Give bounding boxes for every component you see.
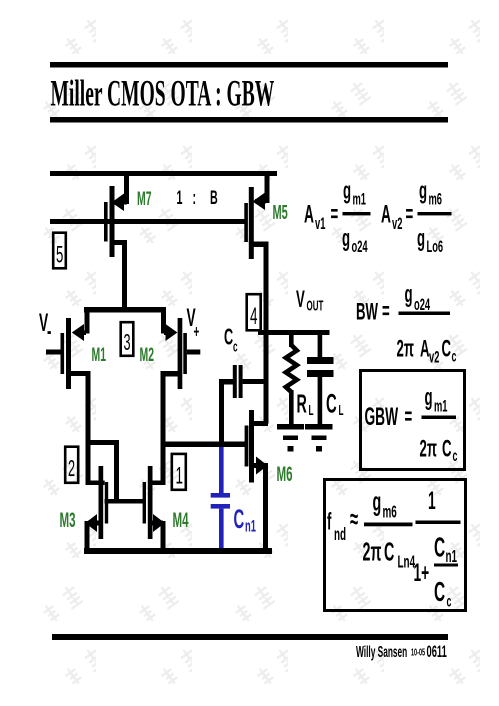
wire tail bar <box>84 307 166 313</box>
transistor M1 drain wire <box>70 371 91 485</box>
svg-text:A: A <box>420 335 430 362</box>
transistor M1 gate lead <box>46 350 61 355</box>
svg-text:g: g <box>373 488 382 517</box>
label M3 <box>60 508 76 532</box>
transistor M4 source arrow <box>151 514 165 532</box>
svg-text:g: g <box>405 281 413 308</box>
capacitor Cn1 plates <box>211 493 230 509</box>
svg-text:2: 2 <box>68 455 75 481</box>
transistor M4 drain wire <box>148 481 165 486</box>
svg-text:m1: m1 <box>353 190 367 209</box>
svg-text:m6: m6 <box>429 190 443 209</box>
wire M5 drain to output node <box>264 330 269 424</box>
transistor M6 channel bar <box>249 410 254 483</box>
resistor RL <box>286 334 297 424</box>
svg-text:M4: M4 <box>173 508 189 532</box>
transistor M1 channel bar <box>66 318 71 389</box>
transistor M2 source wire <box>161 307 166 334</box>
wire VDD rail <box>50 171 277 176</box>
transistor M4 gate bar <box>143 482 146 524</box>
svg-text:-: - <box>47 318 51 345</box>
label M4 <box>173 508 189 532</box>
label M7 <box>137 189 152 210</box>
transistor M5 drain wire <box>251 242 269 332</box>
svg-text:c: c <box>452 347 457 366</box>
label 1 : B <box>177 188 218 209</box>
wire ground rail <box>84 548 272 554</box>
svg-text:=: = <box>382 298 390 325</box>
wire node 1 to M6 gate <box>163 442 245 448</box>
svg-text:g: g <box>417 225 425 252</box>
svg-text:v1: v1 <box>315 214 326 233</box>
svg-text:M6: M6 <box>277 462 293 486</box>
svg-text:B: B <box>210 188 218 209</box>
title text <box>51 74 275 114</box>
svg-text:M7: M7 <box>137 189 152 210</box>
svg-text:g: g <box>425 384 433 411</box>
svg-text:C: C <box>224 323 233 349</box>
svg-text:C: C <box>234 503 245 534</box>
label M1 <box>92 345 107 366</box>
transistor M6 gate bar <box>245 426 249 467</box>
formula box GBW <box>361 371 465 470</box>
svg-text:4: 4 <box>250 303 257 330</box>
label Cn1 <box>234 503 257 535</box>
svg-text:10-05: 10-05 <box>411 647 425 658</box>
svg-text:R: R <box>297 390 307 419</box>
transistor M2 source arrow <box>164 324 177 341</box>
transistor M2 gate bar <box>183 333 187 374</box>
ground below RL <box>277 424 304 452</box>
svg-text:=: = <box>331 201 339 228</box>
svg-text:=: = <box>405 403 413 430</box>
svg-text:M1: M1 <box>92 345 107 366</box>
svg-text:0611: 0611 <box>427 642 448 661</box>
svg-text:o24: o24 <box>352 237 368 256</box>
svg-text:c: c <box>453 446 458 465</box>
transistor M7 channel bar <box>110 186 115 257</box>
svg-text:f: f <box>327 508 332 535</box>
svg-text:≈: ≈ <box>350 503 358 534</box>
svg-text:nd: nd <box>334 525 346 545</box>
svg-text:C: C <box>326 388 337 419</box>
svg-text:1: 1 <box>428 488 436 515</box>
transistor M5 gate bar <box>244 203 248 242</box>
svg-text:Ln4: Ln4 <box>398 553 416 573</box>
capacitor Cn1 wire upper <box>219 447 224 494</box>
svg-text:2π: 2π <box>420 435 438 462</box>
capacitor Cc plates <box>233 365 243 398</box>
bottom rule <box>52 634 448 640</box>
wire mirror gate rail <box>50 219 245 224</box>
label V- <box>39 310 51 345</box>
svg-text:C: C <box>442 335 452 362</box>
transistor M1 source arrow <box>72 324 86 341</box>
svg-text:M5: M5 <box>273 202 288 224</box>
formula Av1 <box>304 177 371 255</box>
svg-text:A: A <box>304 201 314 228</box>
transistor M2 channel bar <box>178 318 183 389</box>
svg-text:M3: M3 <box>60 508 76 532</box>
transistor M7 source arrow <box>112 194 128 212</box>
title bottom rule <box>50 117 448 123</box>
svg-text:v2: v2 <box>429 348 440 367</box>
svg-text:BW: BW <box>356 298 378 325</box>
title top rule <box>50 62 448 68</box>
formula box fnd <box>325 480 466 611</box>
svg-text:OUT: OUT <box>307 298 324 314</box>
ground below CL <box>305 424 333 452</box>
label M6 <box>277 462 293 486</box>
transistor M3 source wire <box>85 521 90 553</box>
credit text <box>356 642 447 661</box>
transistor M3 drain wire <box>86 481 105 486</box>
svg-text:C: C <box>434 532 445 563</box>
label RL <box>297 390 314 419</box>
wire VOUT node <box>258 330 330 335</box>
svg-text:Lo6: Lo6 <box>427 237 444 256</box>
formula Av2 <box>381 177 452 255</box>
capacitor CL <box>307 334 334 424</box>
transistor M7 gate bar <box>104 202 108 242</box>
transistor M7 drain wire <box>113 240 127 311</box>
svg-text:A: A <box>381 201 391 228</box>
svg-text:n1: n1 <box>245 517 256 536</box>
svg-text:m1: m1 <box>434 397 448 416</box>
transistor M3 channel bar <box>99 466 104 539</box>
transistor M6 source wire <box>263 463 268 548</box>
transistor M3 source arrow <box>85 514 100 532</box>
transistor M3 diode connection <box>86 440 119 504</box>
svg-text:2π: 2π <box>397 335 415 362</box>
transistor M7 source wire <box>124 173 129 204</box>
svg-text:M2: M2 <box>140 345 155 366</box>
svg-text:C: C <box>434 576 445 607</box>
transistor M5 source arrow <box>253 193 267 211</box>
node box 1 <box>172 454 186 490</box>
svg-text:Miller CMOS OTA : GBW: Miller CMOS OTA : GBW <box>51 74 275 114</box>
capacitor Cc right wire <box>243 379 265 384</box>
svg-text:+: + <box>194 323 200 343</box>
label V+ <box>187 305 200 343</box>
svg-text:1+: 1+ <box>414 560 430 587</box>
capacitor Cn1 wire lower <box>219 509 224 548</box>
svg-text:c: c <box>447 592 452 611</box>
node box 5 <box>53 233 66 269</box>
transistor M1 source wire <box>85 307 90 334</box>
transistor M3 gate bar <box>105 482 108 524</box>
svg-text:3: 3 <box>124 329 131 355</box>
transistor M5 channel bar <box>249 187 254 259</box>
svg-text:g: g <box>342 225 350 252</box>
label CL <box>326 388 344 419</box>
node box 2 <box>65 447 78 483</box>
node box 3 <box>121 322 134 356</box>
svg-text:2π: 2π <box>363 538 382 567</box>
svg-text:Willy Sansen: Willy Sansen <box>356 642 407 661</box>
svg-text:v2: v2 <box>392 214 403 233</box>
transistor M6 drain wire <box>251 421 268 426</box>
svg-text:5: 5 <box>56 241 63 268</box>
label Cc <box>224 323 238 355</box>
transistor M4 source wire <box>161 521 166 553</box>
label VOUT <box>296 286 324 314</box>
svg-text:L: L <box>339 401 344 418</box>
capacitor Cc left wire <box>219 379 234 442</box>
node box 4 <box>247 294 261 330</box>
transistor M2 gate lead <box>187 350 201 355</box>
svg-text:GBW: GBW <box>365 404 399 431</box>
transistor M6 source arrow <box>254 457 268 475</box>
svg-text:c: c <box>233 338 238 355</box>
svg-text:m6: m6 <box>383 503 397 523</box>
svg-text:g: g <box>419 177 427 204</box>
svg-text:1: 1 <box>176 462 183 489</box>
svg-text:L: L <box>309 401 314 418</box>
label M2 <box>140 345 155 366</box>
transistor M2 drain wire <box>161 371 179 485</box>
svg-text:C: C <box>384 538 394 567</box>
transistor M4 channel bar <box>148 466 153 539</box>
formula BW <box>356 281 456 366</box>
svg-text:1: 1 <box>177 188 183 209</box>
transistor M1 gate bar <box>61 333 65 374</box>
transistor M5 source wire <box>265 173 270 203</box>
svg-text::: : <box>193 188 197 209</box>
svg-text:=: = <box>406 201 414 228</box>
svg-text:V: V <box>296 286 305 313</box>
wire M3 M4 gate line <box>105 499 145 504</box>
svg-text:o24: o24 <box>414 295 430 314</box>
label M5 <box>273 202 288 224</box>
svg-text:C: C <box>442 435 452 462</box>
svg-text:g: g <box>343 177 351 204</box>
